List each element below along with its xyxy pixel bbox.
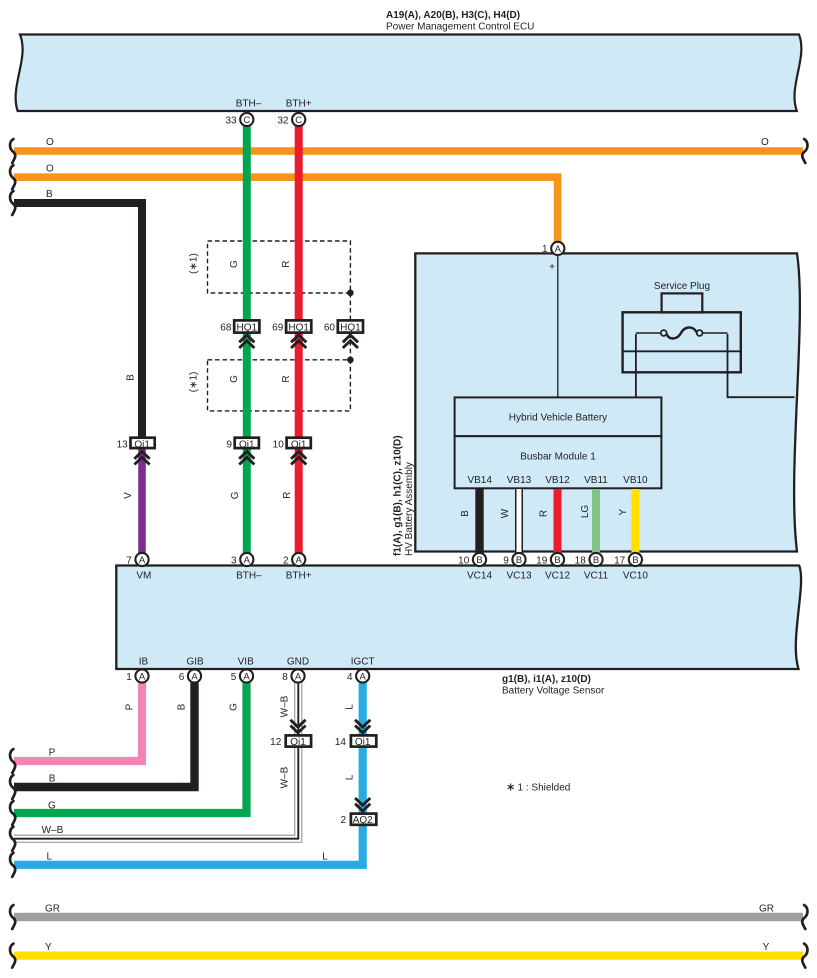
svg-text:68: 68	[220, 323, 232, 334]
svg-text:Power Management Control ECU: Power Management Control ECU	[386, 22, 534, 33]
svg-text:HQ1: HQ1	[340, 323, 361, 334]
connector 12 Qi1	[270, 735, 311, 748]
svg-text:2: 2	[283, 555, 289, 566]
HV Battery Assembly box	[415, 253, 800, 551]
svg-text:G: G	[230, 491, 241, 499]
svg-text:g1(B), i1(A), z10(D): g1(B), i1(A), z10(D)	[502, 674, 591, 685]
svg-text:A: A	[191, 672, 198, 683]
torn end Y left	[10, 944, 15, 968]
svg-text:L: L	[344, 774, 355, 780]
wire Y (yellow, VB10 to 17(B))	[618, 489, 635, 553]
torn end B lower left	[10, 775, 15, 799]
arrow under 9 Qi1	[239, 452, 254, 465]
svg-text:G: G	[48, 801, 56, 812]
torn end GR right	[802, 905, 807, 929]
wire O (orange, lower, to HV battery 1(A))	[14, 163, 558, 242]
svg-text:Busbar Module 1: Busbar Module 1	[520, 452, 596, 463]
wire P (pink, IB to left)	[14, 683, 142, 761]
svg-text:Y: Y	[45, 942, 52, 953]
svg-text:69: 69	[272, 323, 284, 334]
svg-text:BTH–: BTH–	[236, 571, 262, 582]
pin 4 A (sensor bottom)	[347, 669, 369, 682]
svg-text:Qi1: Qi1	[290, 737, 306, 748]
svg-text:HV Battery Assembly: HV Battery Assembly	[404, 462, 415, 556]
svg-text:A: A	[139, 555, 146, 566]
arrow above 14 Qi1	[355, 720, 370, 733]
connector 2 AQ2	[340, 814, 376, 827]
arrow under 60 HQ1	[343, 335, 358, 348]
wire G (green, BTH- to 3(A))	[229, 126, 247, 553]
connector 68 HQ1	[220, 320, 259, 333]
wire O (orange, upper)	[14, 137, 803, 151]
svg-text:P: P	[49, 747, 56, 758]
pin label IB	[139, 657, 149, 668]
svg-text:IGCT: IGCT	[351, 657, 375, 668]
svg-text:W–B: W–B	[279, 695, 290, 717]
svg-text:HQ1: HQ1	[237, 323, 258, 334]
svg-text:A: A	[243, 672, 250, 683]
svg-text:A19(A), A20(B), H3(C), H4(D): A19(A), A20(B), H3(C), H4(D)	[386, 10, 520, 21]
svg-text:A: A	[360, 672, 367, 683]
svg-text:W: W	[500, 508, 511, 518]
pin 10 B	[458, 553, 486, 566]
torn end O upper left	[10, 139, 15, 163]
svg-text:3: 3	[231, 555, 237, 566]
svg-text:18: 18	[575, 555, 587, 566]
svg-text:O: O	[46, 163, 54, 174]
pin label IGCT	[351, 657, 375, 668]
terminal label VB10	[623, 475, 648, 486]
torn end O lower left	[10, 165, 15, 189]
svg-text:BTH–: BTH–	[236, 99, 262, 110]
pin label BTH+	[286, 99, 312, 110]
wire Y (yellow bus)	[14, 942, 803, 956]
wire G (green, VIB to left)	[14, 683, 247, 813]
pin 3 A	[231, 553, 253, 566]
terminal label VB12	[545, 475, 570, 486]
svg-text:2: 2	[340, 815, 346, 826]
svg-text:6: 6	[179, 672, 185, 683]
svg-text:1 : Shielded: 1 : Shielded	[518, 783, 571, 794]
pin label BTH- (sensor)	[236, 571, 262, 582]
svg-text:VC13: VC13	[506, 571, 531, 582]
svg-text:60: 60	[324, 323, 336, 334]
svg-text:VB14: VB14	[467, 475, 492, 486]
svg-text:R: R	[539, 510, 550, 517]
pin 32 C (ECU)	[277, 113, 305, 126]
arrow under 68 HQ1	[239, 335, 254, 348]
svg-text:10: 10	[273, 439, 285, 450]
svg-text:VB11: VB11	[584, 475, 608, 486]
node + (battery positive lead)	[549, 256, 558, 398]
wire B (black, VB14 to 10(B))	[460, 489, 480, 553]
svg-text:VC10: VC10	[623, 571, 648, 582]
pin label BTH+ (sensor)	[286, 571, 312, 582]
svg-text:Qi1: Qi1	[291, 439, 307, 450]
Service Plug label	[654, 281, 710, 292]
svg-text:B: B	[126, 374, 137, 381]
svg-text:19: 19	[536, 555, 548, 566]
svg-text:B: B	[460, 510, 471, 517]
pin label VC13	[506, 571, 531, 582]
Power Management Control ECU label	[386, 10, 534, 33]
torn end O right	[802, 139, 807, 163]
svg-text:10: 10	[458, 555, 470, 566]
connector 13 Qi1	[117, 438, 155, 451]
svg-text:GR: GR	[759, 903, 774, 914]
svg-text:L: L	[344, 704, 355, 710]
wire R (red, VB12 to 19(B))	[539, 489, 558, 553]
arrow above 12 Qi1	[290, 720, 305, 733]
junction dot upper shield box	[347, 290, 354, 297]
torn end GR left	[10, 905, 15, 929]
service plug fuse element	[636, 327, 728, 338]
pin 2 A	[283, 553, 305, 566]
note *1 Shielded	[508, 783, 571, 794]
svg-text:R: R	[281, 260, 292, 267]
connector 69 HQ1	[272, 320, 311, 333]
svg-text:GIB: GIB	[186, 657, 204, 668]
svg-text:BTH+: BTH+	[286, 99, 312, 110]
svg-text:O: O	[761, 137, 769, 148]
pin 1 A (sensor bottom)	[126, 669, 148, 682]
svg-text:W–B: W–B	[279, 766, 290, 788]
torn end B left	[10, 191, 15, 215]
wire W-B (white-black, GND to left)	[14, 683, 298, 839]
pin label VC14	[467, 571, 492, 582]
svg-text:B: B	[516, 555, 522, 566]
torn end P left	[10, 749, 15, 773]
svg-text:9: 9	[226, 439, 232, 450]
pin 17 B	[614, 553, 642, 566]
pin label GIB	[186, 657, 204, 668]
svg-text:L: L	[47, 851, 53, 862]
torn end G left	[10, 801, 15, 825]
arrow under 13 Qi1	[134, 452, 149, 465]
svg-text:Y: Y	[763, 942, 770, 953]
svg-text:C: C	[243, 115, 250, 126]
wire W (white, VB13 to 9(B))	[500, 489, 519, 553]
svg-text:GR: GR	[45, 903, 60, 914]
svg-text:A: A	[296, 555, 303, 566]
svg-text:Qi1: Qi1	[134, 439, 150, 450]
svg-text:33: 33	[225, 115, 237, 126]
wire GR (gray bus)	[14, 903, 803, 917]
wire B (black, from left to 13 Qi1)	[14, 189, 142, 437]
pin label VIB	[238, 657, 254, 668]
svg-text:P: P	[125, 703, 136, 710]
pin 19 B	[536, 553, 564, 566]
wire service plug left leg	[635, 334, 637, 397]
arrow under 10 Qi1	[291, 452, 306, 465]
svg-text:1: 1	[126, 672, 132, 683]
shield dashed box (*1) upper	[189, 241, 351, 293]
terminal label VB14	[467, 475, 492, 486]
pin 9 B	[503, 553, 525, 566]
svg-text:32: 32	[277, 115, 289, 126]
svg-text:G: G	[229, 375, 240, 383]
svg-text:7: 7	[126, 555, 132, 566]
pin 1 A (HV battery)	[542, 242, 564, 255]
shield drain dashed wire to 60 HQ1	[349, 293, 351, 360]
terminal label VB11	[584, 475, 608, 486]
pin 7 A	[126, 553, 148, 566]
svg-text:Qi1: Qi1	[355, 737, 371, 748]
pin label GND	[287, 657, 309, 668]
arrow above 2 AQ2	[355, 798, 370, 811]
connector 10 Qi1	[273, 438, 311, 451]
svg-text:G: G	[229, 260, 240, 268]
ECU box (Power Management Control ECU)	[16, 35, 802, 112]
pin label VC11	[584, 571, 609, 582]
service plug main box	[623, 312, 741, 372]
Battery Voltage Sensor label	[502, 674, 605, 697]
connector 9 Qi1	[226, 438, 259, 451]
svg-text:VB13: VB13	[507, 475, 532, 486]
torn end Y right	[802, 944, 807, 968]
svg-text:VC12: VC12	[545, 571, 570, 582]
pin 6 A (sensor bottom)	[179, 669, 201, 682]
svg-text:VM: VM	[136, 571, 151, 582]
terminal label VB13	[507, 475, 532, 486]
wire service plug right leg to assembly edge	[728, 334, 795, 397]
svg-text:W–B: W–B	[42, 825, 64, 836]
svg-text:VB10: VB10	[623, 475, 648, 486]
junction dot lower shield box	[347, 357, 354, 364]
pin label VM	[136, 571, 151, 582]
svg-text:5: 5	[231, 672, 237, 683]
Hybrid Vehicle Battery box	[455, 397, 662, 436]
torn end W-B left	[10, 827, 15, 851]
svg-text:Battery Voltage Sensor: Battery Voltage Sensor	[502, 685, 605, 696]
svg-text:Service Plug: Service Plug	[654, 281, 710, 292]
svg-text:B: B	[49, 774, 56, 785]
svg-text:VB12: VB12	[545, 475, 570, 486]
svg-text:f1(A), g1(B), h1(C), z10(D): f1(A), g1(B), h1(C), z10(D)	[393, 435, 404, 556]
svg-text:BTH+: BTH+	[286, 571, 312, 582]
HV Battery Assembly side label	[393, 435, 415, 556]
pin label VC12	[545, 571, 570, 582]
svg-text:1: 1	[542, 244, 548, 255]
svg-text:R: R	[281, 375, 292, 382]
svg-text:17: 17	[614, 555, 626, 566]
svg-text:VIB: VIB	[238, 657, 254, 668]
pin label BTH-	[236, 99, 262, 110]
pin label VC10	[623, 571, 648, 582]
svg-text:R: R	[282, 492, 293, 499]
svg-text:A: A	[244, 555, 251, 566]
svg-text:Qi1: Qi1	[239, 439, 255, 450]
svg-text:Y: Y	[618, 509, 629, 516]
arrow under 69 HQ1	[291, 335, 306, 348]
svg-text:A: A	[139, 672, 146, 683]
svg-text:B: B	[554, 555, 560, 566]
shield dashed box (*1) lower	[189, 360, 351, 411]
wire L (light blue, IGCT to left)	[14, 683, 363, 865]
Battery Voltage Sensor box	[116, 566, 801, 670]
svg-text:13: 13	[117, 439, 129, 450]
Busbar Module 1 box	[455, 436, 662, 488]
svg-text:VC14: VC14	[467, 571, 492, 582]
pin 8 A (sensor bottom)	[282, 669, 304, 682]
svg-text:B: B	[177, 703, 188, 710]
svg-text:A: A	[295, 672, 302, 683]
torn end L left	[10, 853, 15, 877]
svg-text:B: B	[632, 555, 638, 566]
svg-text:B: B	[593, 555, 599, 566]
wire LG (light green, VB11 to 18(B))	[580, 489, 596, 553]
svg-text:(∗1): (∗1)	[189, 372, 200, 393]
svg-text:A: A	[555, 244, 562, 255]
connector 14 Qi1	[335, 735, 376, 748]
svg-text:8: 8	[282, 672, 288, 683]
svg-text:O: O	[46, 137, 54, 148]
svg-text:B: B	[46, 189, 53, 200]
connector 60 HQ1	[324, 320, 363, 333]
svg-text:14: 14	[335, 737, 347, 748]
svg-text:+: +	[549, 262, 555, 273]
svg-text:B: B	[476, 555, 482, 566]
pin 33 C (ECU)	[225, 113, 253, 126]
svg-text:IB: IB	[139, 657, 149, 668]
svg-text:Hybrid Vehicle Battery: Hybrid Vehicle Battery	[509, 413, 607, 424]
wire R (red, BTH+ to 2(A))	[281, 126, 299, 553]
svg-text:GND: GND	[287, 657, 309, 668]
svg-text:9: 9	[503, 555, 509, 566]
svg-text:G: G	[229, 703, 240, 711]
pin 18 B	[575, 553, 603, 566]
service plug handle box	[662, 293, 703, 312]
svg-text:V: V	[123, 492, 134, 499]
svg-text:VC11: VC11	[584, 571, 609, 582]
wire V (violet, 13 Qi1 to 7(A))	[123, 450, 142, 554]
service plug divider line	[623, 350, 741, 352]
svg-text:AQ2: AQ2	[353, 815, 373, 826]
svg-text:12: 12	[270, 737, 282, 748]
svg-text:4: 4	[347, 672, 353, 683]
svg-text:C: C	[295, 115, 302, 126]
svg-text:LG: LG	[580, 505, 591, 519]
svg-text:L: L	[322, 852, 328, 863]
svg-text:(∗1): (∗1)	[189, 253, 200, 274]
svg-text:HQ1: HQ1	[288, 323, 309, 334]
wire B (black, GIB to left)	[14, 683, 195, 787]
pin 5 A (sensor bottom)	[231, 669, 253, 682]
